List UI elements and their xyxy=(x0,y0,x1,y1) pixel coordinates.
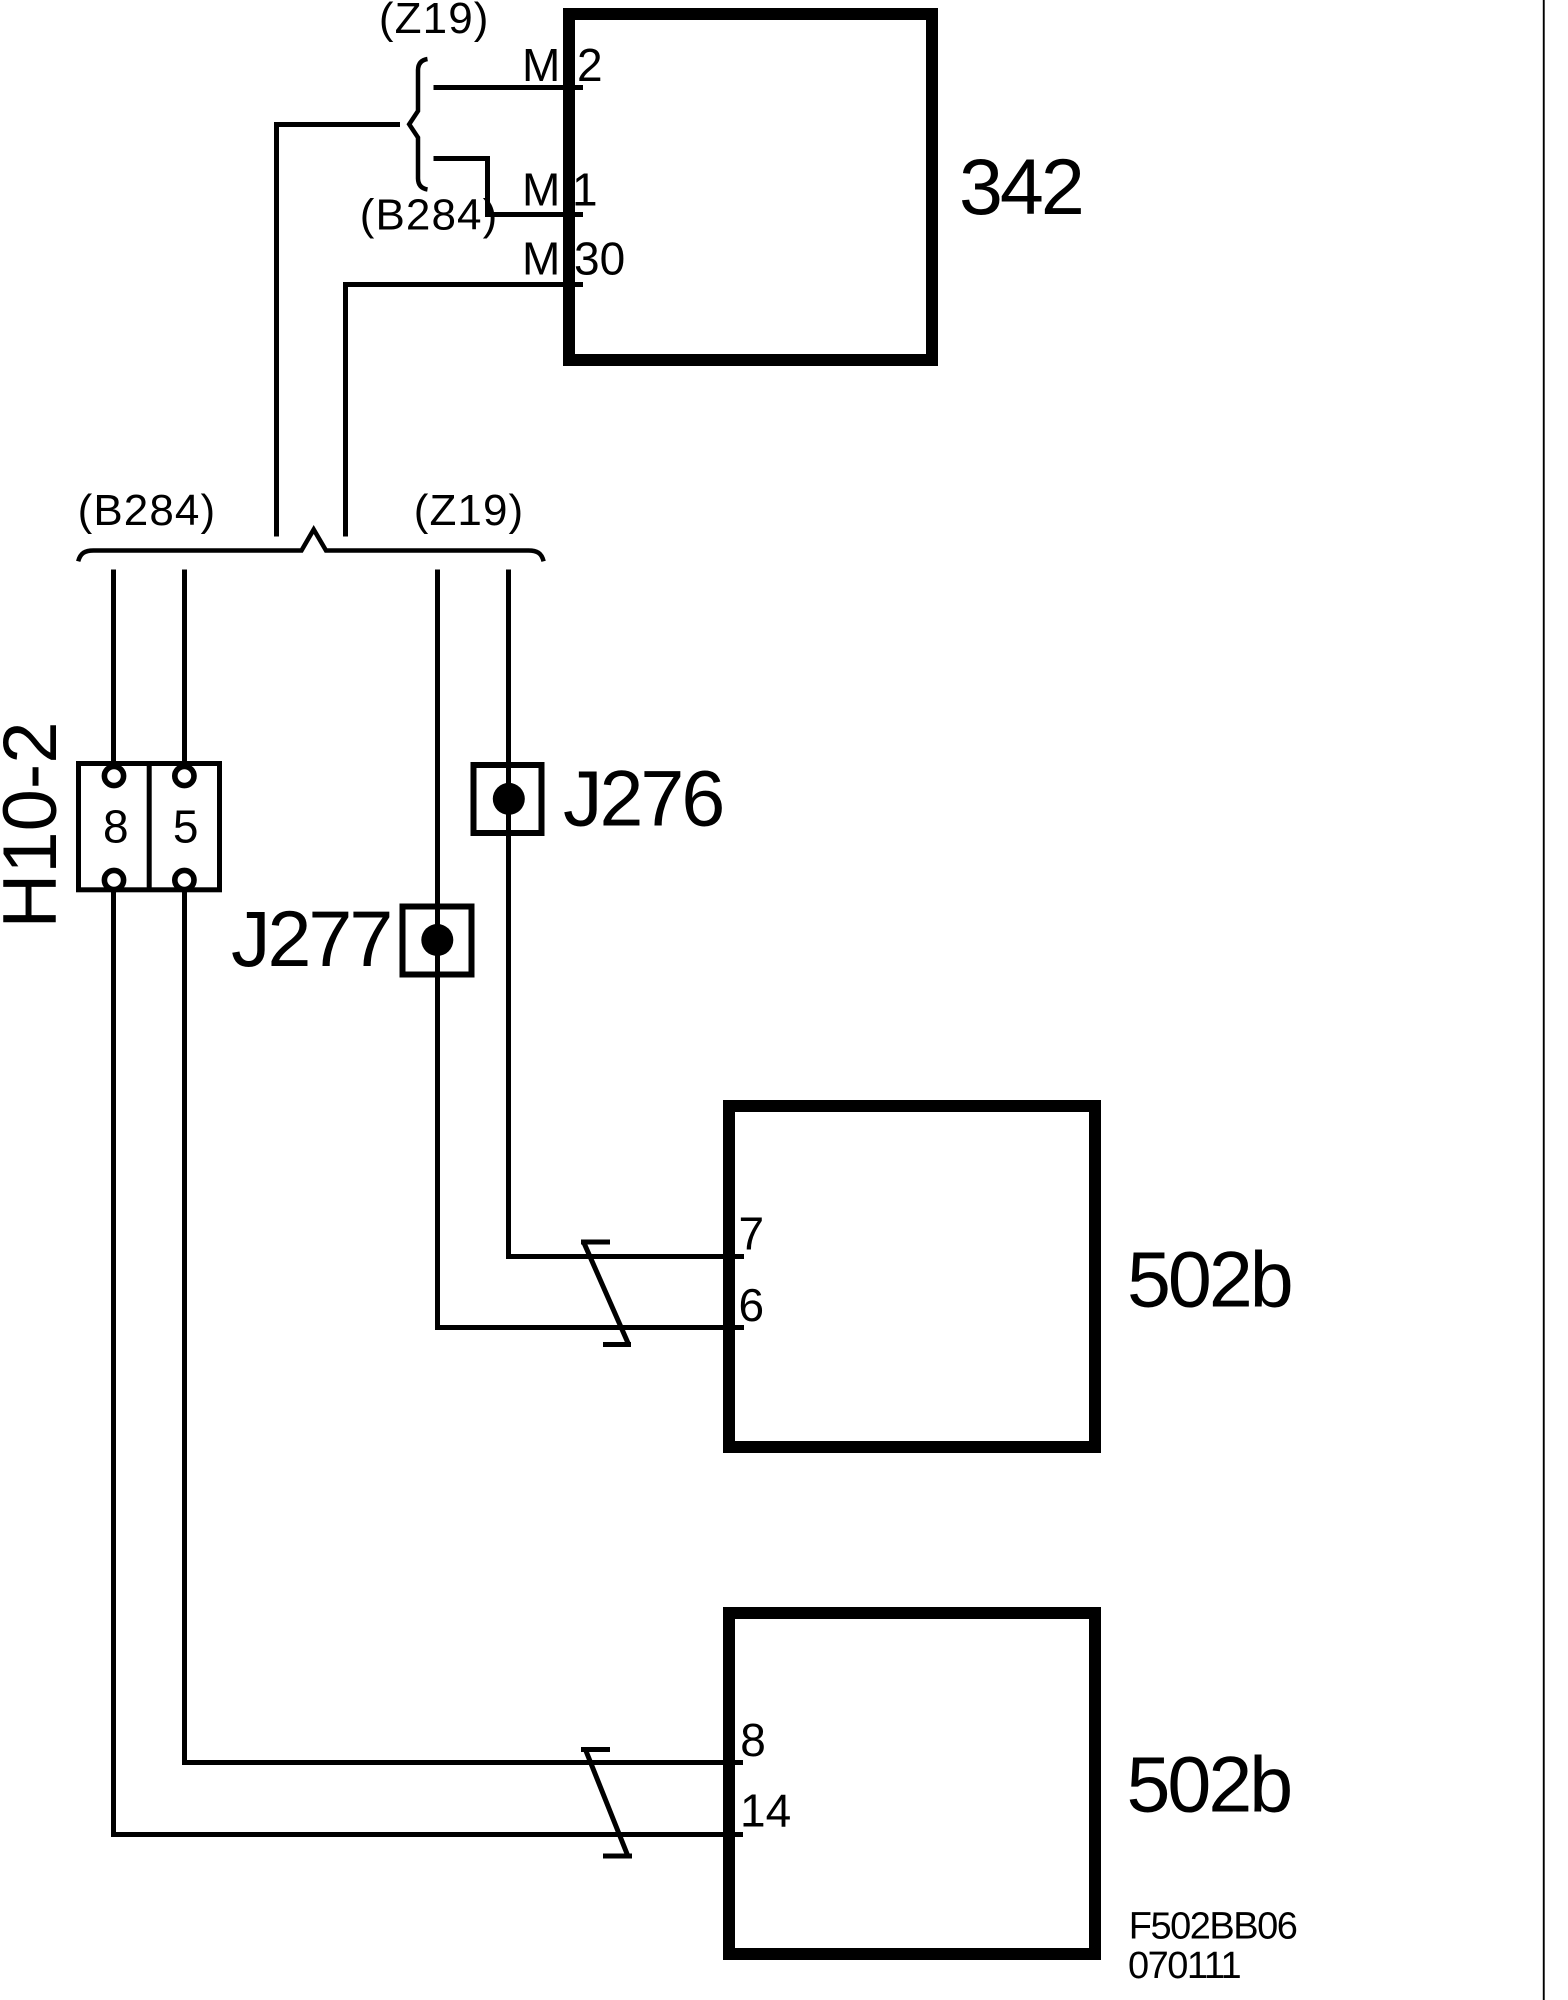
svg-text:J277: J277 xyxy=(231,894,390,983)
svg-text:8: 8 xyxy=(103,801,129,853)
svg-text:H10-2: H10-2 xyxy=(0,722,73,929)
svg-text:502b: 502b xyxy=(1127,1234,1291,1323)
svg-text:502b: 502b xyxy=(1127,1740,1291,1829)
svg-text:M: M xyxy=(522,233,560,285)
svg-text:(B284): (B284) xyxy=(360,191,499,240)
svg-text:(B284): (B284) xyxy=(78,486,217,535)
svg-text:342: 342 xyxy=(959,142,1082,231)
svg-text:J276: J276 xyxy=(563,754,722,843)
svg-text:5: 5 xyxy=(173,801,199,853)
svg-text:6: 6 xyxy=(739,1279,765,1331)
svg-text:8: 8 xyxy=(740,1714,766,1766)
svg-text:F502BB06: F502BB06 xyxy=(1129,1905,1297,1947)
svg-text:7: 7 xyxy=(739,1208,765,1260)
svg-text:1: 1 xyxy=(572,164,598,216)
svg-text:(Z19): (Z19) xyxy=(379,0,490,43)
svg-text:30: 30 xyxy=(574,233,625,285)
svg-text:M: M xyxy=(522,39,560,91)
svg-text:M: M xyxy=(522,164,560,216)
svg-text:2: 2 xyxy=(577,39,603,91)
svg-text:070111: 070111 xyxy=(1128,1945,1241,1987)
svg-text:14: 14 xyxy=(740,1785,791,1837)
svg-text:(Z19): (Z19) xyxy=(414,486,525,535)
